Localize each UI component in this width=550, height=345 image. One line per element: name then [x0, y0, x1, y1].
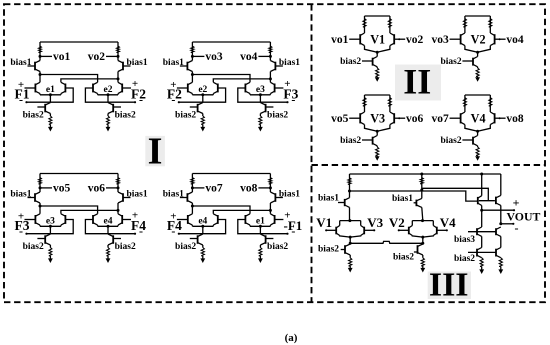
label F4 minus of cell D: [171, 224, 175, 238]
transistor e1 right of cell A: [61, 82, 66, 93]
transistor V4 of pair V2V4: [433, 221, 437, 236]
svg-text:bias1: bias1: [163, 190, 184, 200]
transistor bias2 right of cell C: [108, 234, 121, 245]
svg-text:vo8: vo8: [506, 113, 524, 125]
node vo4: [240, 51, 272, 63]
node column A junction: [420, 189, 423, 192]
wire input F3- of cell B: [238, 88, 289, 103]
wire e2 to tail source of cell B: [202, 95, 204, 103]
wire left rail to node of cell B: [191, 72, 194, 83]
resistor out right of block III: [499, 258, 502, 270]
label F2 plus of cell B: [170, 79, 176, 91]
wire vo1 input of cell V1: [349, 38, 360, 40]
wire input F1+ of cell A: [25, 87, 36, 89]
svg-text:bias2: bias2: [393, 253, 414, 263]
label vo4: [506, 34, 524, 46]
wire vo4 input of cell V2: [495, 38, 506, 40]
ground of cell V3: [375, 156, 380, 161]
transistor bias2 right of cell B: [260, 103, 273, 114]
wire emitters of pair V2V4: [412, 236, 433, 238]
node vo1: [39, 51, 71, 63]
ground out right of block III: [498, 269, 503, 274]
transistor left of cell V2: [461, 33, 465, 46]
svg-text:e3: e3: [256, 85, 265, 95]
label -F1 plus of cell D: [284, 209, 290, 221]
label F3 of cell C: [15, 218, 30, 233]
label F1 minus of cell A: [19, 92, 23, 106]
wire top rail of cell C: [40, 173, 118, 175]
svg-text:V4: V4: [471, 111, 486, 125]
wire e3 to tail source of cell B: [259, 95, 261, 103]
transistor bias1 right of cell A: [118, 61, 131, 72]
label bias1 right of cell B: [279, 58, 300, 68]
transistor bias1 right of cell C: [118, 192, 131, 203]
wire e1 to tail source of cell D: [259, 226, 261, 234]
svg-text:bias2: bias2: [115, 242, 136, 252]
svg-text:II: II: [403, 62, 431, 102]
svg-text:V2: V2: [389, 215, 405, 230]
svg-text:bias1: bias1: [10, 58, 31, 68]
transistor e4 right of cell D: [213, 214, 218, 225]
resistor load right of cell D: [269, 174, 272, 193]
resistor tail left of block III: [349, 258, 352, 268]
svg-text:-: -: [291, 224, 295, 238]
node vo6: [88, 183, 120, 195]
label F4 of cell D: [167, 218, 182, 233]
transistor e3 left of cell B: [245, 82, 250, 93]
transistor left of cell V3: [360, 112, 364, 125]
transistor bias3 right of block III: [496, 227, 501, 236]
resistor out left of block III: [480, 258, 483, 270]
node left column rail2 junction: [348, 190, 351, 193]
wire cross-couple A of cell A: [40, 75, 98, 83]
svg-text:-: -: [19, 92, 23, 106]
svg-text:bias3: bias3: [454, 235, 475, 245]
wire e4 to tail source of cell C: [107, 226, 109, 234]
svg-text:vo7: vo7: [432, 113, 450, 125]
resistor right of cell V3: [388, 95, 391, 112]
label bias2 mid of block III: [393, 253, 414, 263]
wire V2 input: [398, 229, 409, 231]
svg-text:vo6: vo6: [406, 113, 424, 125]
label block I: [145, 131, 165, 173]
node vo8: [240, 183, 272, 195]
svg-text:-: -: [139, 92, 143, 106]
label V1: [370, 32, 385, 46]
label bias1 left of cell D: [163, 190, 184, 200]
transistor left of cell V1: [360, 33, 364, 46]
ground left of cell C: [48, 258, 53, 263]
label block III: [428, 266, 471, 303]
wire right rail to node of cell C: [117, 203, 120, 214]
label F2 of cell A: [131, 87, 146, 102]
node e3: [46, 217, 55, 228]
svg-text:bias2: bias2: [267, 242, 288, 252]
resistor left of cell V1: [363, 16, 366, 33]
ground right of cell C: [106, 258, 111, 263]
transistor right of cell V1: [390, 33, 394, 46]
label -F1 minus of cell D: [291, 224, 295, 238]
ground out left of block III: [479, 269, 484, 274]
svg-text:-: -: [19, 224, 23, 238]
node tail of cell V3: [376, 130, 379, 133]
transistor e3 left of cell C: [35, 214, 40, 225]
wire bias3 net of block III: [468, 231, 496, 233]
label F1 of cell A: [15, 87, 30, 102]
label bias1 left of cell B: [163, 58, 184, 68]
svg-text:e2: e2: [104, 85, 113, 95]
node vo3: [191, 51, 223, 63]
label bias2 of cell V1: [340, 57, 361, 67]
node e3: [256, 85, 265, 96]
ground left of cell A: [48, 127, 53, 132]
label -F1 of cell D: [284, 218, 303, 233]
svg-text:I: I: [148, 131, 163, 173]
transistor right of cell V4: [490, 112, 494, 125]
transistor bias1 right of cell B: [270, 61, 283, 72]
transistor e4 left of cell C: [93, 214, 98, 225]
resistor load left of cell C: [39, 174, 42, 193]
svg-text:V1: V1: [370, 32, 385, 46]
svg-text:vo1: vo1: [53, 51, 71, 63]
transistor e3 right of cell B: [270, 82, 274, 93]
resistor tail left of cell D: [201, 245, 204, 260]
svg-text:vo3: vo3: [432, 34, 450, 46]
label vo2: [406, 34, 424, 46]
transistor bias2 outC of block III: [496, 236, 501, 257]
wire top rail of cell B: [192, 41, 270, 43]
resistor left of cell V2: [463, 16, 466, 33]
wire top rail of cell V1: [365, 15, 390, 17]
resistor column A of block III: [420, 174, 423, 190]
label F4 plus of cell D: [170, 210, 176, 222]
svg-text:V3: V3: [370, 111, 385, 125]
resistor tail left of cell C: [49, 245, 52, 260]
resistor left of cell V3: [363, 95, 366, 112]
wire cross-couple B of cell C: [61, 210, 118, 213]
label F2 minus of cell B: [171, 92, 175, 106]
ground left of cell B: [200, 127, 205, 132]
wire e3 to tail source of cell C: [49, 226, 51, 234]
wire V3 input: [364, 229, 375, 231]
wire input F3+ of cell B: [275, 87, 284, 89]
transistor left of cell V4: [461, 112, 465, 125]
wire left rail to node of cell D: [191, 203, 194, 214]
svg-text:bias1: bias1: [127, 58, 148, 68]
wire common emitter e3: [40, 225, 61, 226]
node tail of cell V1: [376, 51, 379, 54]
ground left of block III: [348, 268, 353, 273]
transistor bias2 left of block III: [341, 244, 351, 258]
wire vo7 input of cell V4: [450, 117, 461, 119]
transistor T6 of block III: [478, 174, 482, 210]
svg-text:vo4: vo4: [506, 34, 524, 46]
transistor bias2 right of cell D: [260, 234, 273, 245]
wire vo3 input of cell V2: [450, 38, 461, 40]
node VOUT minus junction: [499, 222, 502, 225]
svg-text:bias2: bias2: [440, 136, 461, 146]
label bias1 right of cell A: [127, 58, 148, 68]
label VOUT plus: [513, 196, 520, 210]
transistor bias2 left of cell A: [37, 103, 50, 114]
label bias3 of block III: [454, 235, 475, 245]
label bias1 right of cell C: [127, 190, 148, 200]
label V4: [471, 111, 486, 125]
wire e2 to tail source of cell A: [107, 95, 109, 103]
wire tail tie between pairs: [349, 237, 425, 245]
transistor V2 of pair V2V4: [409, 221, 413, 236]
resistor tail right of cell A: [107, 114, 110, 129]
transistor bias1 left of cell B: [180, 61, 193, 72]
wire input F2+ of cell A: [122, 87, 131, 89]
transistor bias3 left of block III: [477, 210, 482, 236]
node e1: [256, 217, 265, 228]
label F4 minus of cell C: [139, 224, 143, 238]
wire input F4- of cell C: [85, 220, 136, 235]
transistor bias2 right of cell A: [108, 103, 121, 114]
label F2 of cell B: [167, 87, 182, 102]
wire common emitter e4: [98, 225, 118, 226]
node e2: [198, 85, 207, 96]
resistor left column of block III: [348, 174, 351, 191]
wire vo2 input of cell V1: [394, 38, 405, 40]
label bias2 left of cell B: [175, 111, 196, 121]
svg-text:bias2: bias2: [175, 111, 196, 121]
label bias2 left of block III: [318, 245, 339, 255]
resistor tail of cell V3: [376, 146, 379, 158]
label vo1: [331, 34, 349, 46]
wire right rail to node of cell A: [117, 72, 120, 83]
transistor bias2 left of cell C: [37, 234, 50, 245]
wire top rail of pair V1V3: [340, 219, 361, 222]
wire common emitter e2: [192, 94, 213, 95]
wire top rail of pair V2V4: [412, 219, 433, 222]
wire emitters of pair V1V3: [340, 236, 361, 238]
caption (a): [285, 332, 298, 344]
svg-text:bias2: bias2: [340, 136, 361, 146]
ground left of cell D: [200, 258, 205, 263]
transistor bias1 right of cell D: [270, 192, 283, 203]
wire input -F1+ of cell D: [275, 219, 284, 221]
label V2: [471, 32, 486, 46]
dashed divider between block I and blocks II III: [311, 4, 313, 302]
transistor bias1 left of cell D: [180, 192, 193, 203]
transistor bias2 of cell V2: [462, 52, 477, 67]
label F3 plus of cell B: [284, 78, 290, 90]
wire top rail of cell V4: [465, 94, 490, 96]
wire input F4+ of cell D: [177, 219, 188, 221]
transistor bias2 left of cell D: [190, 234, 203, 245]
svg-text:bias2: bias2: [23, 111, 44, 121]
svg-text:-: -: [515, 221, 519, 235]
transistor e2 left of cell B: [188, 82, 193, 93]
transistor bias2 outB of block III: [477, 236, 482, 257]
label bias2 left of cell D: [175, 242, 196, 252]
ground right of cell B: [258, 127, 263, 132]
svg-text:vo2: vo2: [406, 34, 424, 46]
label F2 plus of cell A: [132, 78, 138, 90]
svg-text:vo7: vo7: [205, 183, 223, 195]
wire emitters of cell V2: [465, 46, 490, 53]
wire input F2- of cell B: [178, 88, 226, 103]
transistor T7 output of block III: [496, 174, 501, 224]
label bias1 left of cell A: [10, 58, 31, 68]
wire top rail of cell V3: [365, 94, 390, 96]
wire V1 input: [325, 229, 336, 231]
label F3 plus of cell C: [18, 210, 24, 222]
wire emitters of cell V1: [365, 46, 390, 53]
label F3 minus of cell C: [19, 224, 23, 238]
resistor tail right of cell D: [259, 245, 262, 260]
transistor bias2 of cell V1: [362, 52, 377, 67]
ground right of cell D: [258, 258, 263, 263]
svg-text:bias1: bias1: [279, 190, 300, 200]
wire common emitter e3: [250, 94, 270, 95]
svg-text:bias1: bias1: [127, 190, 148, 200]
transistor bias2 left of cell B: [190, 103, 203, 114]
svg-text:bias2: bias2: [267, 111, 288, 121]
wire common emitter e1: [40, 94, 61, 95]
label vo5: [331, 113, 349, 125]
label bias1 left of cell C: [10, 190, 31, 200]
svg-text:-: -: [171, 224, 175, 238]
svg-text:vo5: vo5: [53, 183, 71, 195]
svg-text:bias1: bias1: [318, 194, 339, 204]
transistor right of cell V2: [490, 33, 494, 46]
wire vo6 input of cell V3: [394, 117, 405, 119]
transistor right of cell V3: [390, 112, 394, 125]
resistor right of cell V2: [489, 16, 492, 33]
svg-text:e1: e1: [256, 217, 265, 227]
wire emitters of cell V3: [365, 125, 390, 132]
resistor left of cell V4: [463, 95, 466, 112]
node tail of cell V2: [476, 51, 479, 54]
wire common emitter e2: [98, 94, 118, 95]
svg-text:bias2: bias2: [23, 242, 44, 252]
wire input F2- of cell A: [85, 88, 136, 103]
ground of cell V1: [375, 77, 380, 82]
label bias1 left of block III: [318, 194, 339, 204]
label bias2 right of cell C: [115, 242, 136, 252]
svg-text:bias2: bias2: [440, 57, 461, 67]
transistor e3 right of cell C: [61, 214, 66, 225]
ground of cell V4: [475, 156, 480, 161]
node tail of pair V1V3: [349, 236, 352, 239]
wire rail2a of block III: [422, 188, 495, 200]
transistor bias1 left of block III: [338, 191, 350, 221]
label bias2 right of cell D: [267, 242, 288, 252]
node e4: [104, 217, 113, 228]
label bias2 of cell V3: [340, 136, 361, 146]
transistor bias1 mid of block III: [414, 190, 423, 221]
wire vo8 input of cell V4: [495, 117, 506, 119]
transistor e1 left of cell D: [245, 214, 250, 225]
node e2: [104, 85, 113, 96]
transistor e1 left of cell A: [35, 82, 40, 93]
svg-text:e2: e2: [198, 85, 207, 95]
svg-text:e1: e1: [46, 85, 55, 95]
wire input F1- of cell A: [25, 88, 73, 103]
wire input -F1- of cell D: [238, 220, 289, 235]
transistor bias2 of cell V3: [362, 131, 377, 146]
svg-text:bias1: bias1: [10, 190, 31, 200]
label bias2 of cell V4: [440, 136, 461, 146]
label F1 plus of cell A: [18, 79, 24, 91]
svg-text:-: -: [291, 92, 295, 106]
resistor load left of cell A: [39, 42, 42, 61]
wire left rail to node of cell A: [39, 72, 42, 83]
node tail of pair V2V4: [421, 236, 424, 239]
wire top rail of cell V2: [465, 15, 490, 17]
svg-text:(a): (a): [285, 332, 298, 344]
node vo7: [191, 183, 223, 195]
wire top rail of block III: [350, 173, 501, 176]
node output mirror junction: [480, 209, 483, 212]
transistor e4 left of cell D: [188, 214, 193, 225]
svg-text:bias1: bias1: [279, 58, 300, 68]
resistor load left of cell D: [191, 174, 194, 193]
wire input F4- of cell D: [178, 220, 226, 235]
label F3 of cell B: [283, 87, 298, 102]
label VOUT minus: [515, 221, 519, 235]
svg-text:bias2: bias2: [454, 254, 475, 264]
label block II: [395, 62, 441, 102]
transistor bias1 left of cell A: [28, 61, 41, 72]
wire common emitter e1: [250, 225, 270, 226]
wire top rail of cell D: [192, 173, 270, 175]
wire common emitter e4: [192, 225, 213, 226]
wire top rail of cell A: [40, 41, 118, 43]
wire input F3+ of cell C: [25, 219, 36, 221]
svg-text:vo8: vo8: [240, 183, 258, 195]
resistor load right of cell C: [117, 174, 120, 193]
wire cross-couple A of cell B: [192, 75, 250, 83]
wire bias2 net of block III: [468, 251, 496, 253]
label vo6: [406, 113, 424, 125]
wire input F3- of cell C: [25, 220, 73, 235]
resistor tail of cell V4: [476, 146, 479, 158]
label VOUT: [507, 210, 541, 224]
resistor load right of cell B: [269, 42, 272, 61]
svg-text:bias1: bias1: [163, 58, 184, 68]
transistor bias1 left of cell C: [28, 192, 41, 203]
resistor right of cell V4: [489, 95, 492, 112]
wire input F2+ of cell B: [177, 87, 188, 89]
label V3: [370, 111, 385, 125]
svg-text:V1: V1: [316, 215, 332, 230]
node tail of cell V4: [476, 130, 479, 133]
transistor bias2 mid of block III: [414, 244, 423, 258]
wire VOUT plus tap: [482, 209, 515, 211]
svg-text:V2: V2: [471, 32, 486, 46]
svg-text:vo4: vo4: [240, 51, 258, 63]
svg-text:-: -: [139, 224, 143, 238]
wire vo5 input of cell V3: [349, 117, 360, 119]
svg-text:bias1: bias1: [392, 194, 413, 204]
resistor tail mid of block III: [421, 258, 424, 268]
svg-text:V4: V4: [440, 215, 456, 230]
wire e4 to tail source of cell D: [202, 226, 204, 234]
dashed divider between block II and block III: [312, 164, 546, 166]
label bias2 right of cell B: [267, 111, 288, 121]
label F2 minus of cell A: [139, 92, 143, 106]
svg-text:vo2: vo2: [88, 51, 106, 63]
ground mid of block III: [420, 268, 425, 273]
transistor e1 right of cell D: [270, 214, 274, 225]
svg-text:vo6: vo6: [88, 183, 106, 195]
transistor e2 right of cell A: [118, 82, 122, 93]
node vo5: [39, 183, 71, 195]
